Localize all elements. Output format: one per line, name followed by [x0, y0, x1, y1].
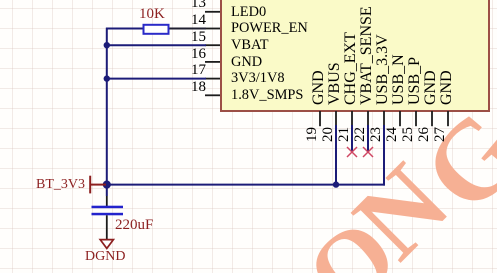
- power port label DGND: [85, 250, 125, 264]
- pin name GND (pin 19, vertical): [311, 70, 327, 105]
- pin 25 stub: [415, 111, 417, 126]
- pin number 24 (vertical): [385, 127, 400, 142]
- pin 27 stub: [447, 111, 449, 126]
- junction node pin15/vertical: [104, 42, 110, 48]
- pin name VBUS (pin 20, vertical): [327, 62, 343, 105]
- pin name 1.8V_SMPS (pin 18): [231, 88, 303, 102]
- pin 16 stub: [205, 61, 220, 63]
- wire resistor left to corner: [106, 28, 144, 30]
- pin 18 stub: [205, 94, 220, 96]
- pin number 16: [190, 47, 206, 62]
- wire horizontal bus BT_3V3: [106, 184, 385, 186]
- resistor R 10K body: [144, 25, 169, 34]
- pin name VBAT_SENSE (pin 22, vertical): [359, 6, 375, 105]
- pin name CHG_EXT (pin 21, vertical): [343, 32, 359, 105]
- pin 15 stub: [205, 44, 220, 46]
- wire pin 20 down: [335, 125, 337, 185]
- watermark letter G: [403, 92, 497, 231]
- wire vertical main left: [106, 28, 108, 196]
- pin number 21 (vertical): [337, 127, 352, 142]
- capacitor C 220uF plates: [92, 206, 124, 209]
- pin number 25 (vertical): [401, 127, 416, 142]
- pin 17 stub: [205, 78, 220, 80]
- pin number 15: [190, 30, 206, 45]
- pin number 14: [190, 13, 206, 28]
- wire resistor right to pin 14: [169, 28, 207, 30]
- pin 13 stub: [205, 11, 220, 13]
- pin number 22 (vertical): [353, 127, 368, 142]
- power port BT_3V3 stem: [90, 184, 106, 186]
- wire pin 17 (3V3/1V8): [106, 78, 206, 80]
- pin name GND (pin 16): [231, 55, 262, 69]
- pin 20 stub: [335, 111, 337, 126]
- pin name USB_N (pin 24, vertical): [391, 54, 407, 105]
- power port BT_3V3 bar: [89, 176, 91, 194]
- watermark letter N: [336, 146, 468, 273]
- junction node pin20/bus: [333, 181, 339, 187]
- pin name VBAT (pin 15): [231, 38, 269, 52]
- no-connect X pin 21: [347, 147, 357, 157]
- pin number 17: [190, 63, 206, 78]
- pin name 3V3/1V8 (pin 17): [231, 71, 285, 85]
- pin number 27 (vertical): [433, 127, 448, 142]
- wire pin 23 down: [383, 125, 385, 186]
- capacitor value 220uF: [115, 218, 153, 232]
- pin 26 stub: [431, 111, 433, 126]
- capacitor C top stub: [106, 196, 108, 206]
- pin name POWER_EN (pin 14): [231, 21, 308, 35]
- pin name LED0 (pin 13): [231, 5, 266, 19]
- pin name USB_P (pin 25, vertical): [407, 56, 423, 104]
- wire pin 15 (VBAT): [106, 44, 206, 46]
- wire pin 22 down: [367, 125, 369, 152]
- pin number 26 (vertical): [417, 127, 432, 142]
- pin 21 stub: [351, 111, 353, 126]
- pin number 23 (vertical): [369, 127, 384, 142]
- watermark letter O: [290, 201, 414, 273]
- pin name GND (pin 27, vertical): [439, 70, 455, 105]
- pin number 20 (vertical): [321, 127, 336, 142]
- junction node BT_3V3: [103, 181, 111, 189]
- pin 14 stub: [205, 28, 220, 30]
- power port DGND arrow: [100, 240, 113, 249]
- junction node pin17/vertical: [104, 75, 110, 81]
- capacitor C bottom stub: [106, 215, 108, 239]
- pin number 19 (vertical): [305, 127, 320, 142]
- net label BT_3V3: [36, 178, 85, 192]
- pin 24 stub: [399, 111, 401, 126]
- pin 19 stub: [319, 111, 321, 126]
- pin number 13: [190, 0, 206, 11]
- pin 22 stub: [367, 111, 369, 126]
- pin name GND (pin 26, vertical): [423, 70, 439, 105]
- resistor value 10K: [139, 7, 165, 21]
- op-amp U1 (IC body): [220, 0, 490, 112]
- pin number 18: [190, 80, 206, 95]
- wire pin 21 down: [351, 125, 353, 152]
- pin 23 stub: [383, 111, 385, 126]
- no-connect X pin 22: [363, 147, 373, 157]
- pin name USB_3.3V (pin 23, vertical): [375, 34, 391, 105]
